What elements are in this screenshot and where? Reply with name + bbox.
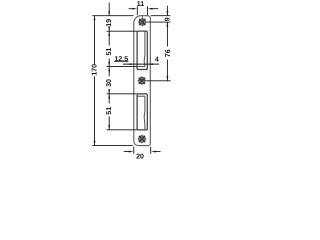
arrow 76 down: [166, 76, 168, 81]
arrow 19 down at plate top: [108, 11, 110, 16]
svg-text:30: 30: [106, 79, 113, 87]
dim 19 tail top: [108, 3, 110, 16]
dim 20 ext line right: [150, 147, 152, 154]
arrow 9 down: [166, 11, 168, 16]
dim 30 line: [108, 67, 110, 94]
arrow 4 (points left at cutout edge): [148, 63, 153, 65]
ext line cutout1 inner bottom: [107, 66, 137, 68]
arrow 9 up / 76 top: [166, 22, 168, 27]
svg-text:51: 51: [106, 107, 113, 115]
svg-text:9: 9: [165, 17, 172, 21]
arrow 51a down: [108, 62, 110, 67]
ext line cutout2 top: [107, 93, 137, 95]
dim 170 line lower: [94, 76, 96, 145]
arrow 51a up: [108, 31, 110, 36]
screw hole H1: [138, 16, 147, 27]
dim 9 tail bottom / dim 76 line: [166, 22, 168, 81]
svg-text:4: 4: [155, 57, 159, 64]
ext line hole1 centre: [147, 21, 171, 23]
dim 20 ext line left: [133, 147, 135, 154]
dim 11 arrow tails: [129, 8, 159, 10]
arrow 11 right (points left): [148, 8, 153, 10]
arrow 19 down at cutout1 top: [108, 27, 110, 32]
ext line hole2 centre: [146, 80, 170, 82]
leader line 12.5 / 4: [123, 63, 159, 65]
ext line plate bottom (left): [92, 145, 133, 147]
arrow 11 left (points right): [132, 8, 137, 10]
underline 12.5: [114, 60, 128, 62]
latch cutout (top): [137, 31, 147, 69]
svg-text:170: 170: [92, 64, 99, 76]
dim 51a line: [108, 31, 110, 66]
arrow 30 down: [108, 89, 110, 94]
dim 51b line: [108, 94, 110, 130]
svg-text:19: 19: [106, 19, 113, 27]
dim 19 tail bottom: [108, 28, 110, 32]
arrow 20 right (points left): [151, 151, 156, 153]
arrow 30 up: [108, 67, 110, 72]
latch lip line (top cutout): [143, 32, 146, 67]
deadbolt cutout (bottom): [137, 94, 147, 130]
dim 9 tail top: [166, 6, 168, 16]
screw hole H3: [138, 135, 147, 144]
dim 11 ext line right: [146, 6, 148, 15]
ext line cutout2 bottom: [107, 129, 137, 131]
dim 170 line upper: [94, 16, 96, 64]
arrow 12.5 (points right at plate edge): [130, 63, 135, 65]
arrow 51b down: [108, 125, 110, 130]
latch cutout top: inner bottom line: [137, 66, 145, 68]
screw hole H2: [138, 76, 147, 85]
svg-text:20: 20: [136, 154, 144, 160]
latch lip line (bottom cutout): [143, 96, 146, 129]
ext line cutout1 top: [107, 30, 137, 32]
dim 11 ext line left: [136, 6, 138, 15]
ext line plate top (right): [151, 15, 171, 17]
deadbolt cutout: inner top line: [137, 95, 145, 97]
strike plate outline: [134, 16, 151, 146]
dim 20 arrow tails: [124, 151, 161, 153]
arrow 170 down: [94, 141, 96, 146]
svg-text:51: 51: [106, 48, 113, 56]
arrow 170 up: [94, 16, 96, 21]
svg-text:12.5: 12.5: [114, 56, 128, 63]
arrow 20 left (points right): [129, 151, 134, 153]
svg-text:11: 11: [137, 1, 145, 8]
ext line plate top (left): [92, 15, 133, 17]
svg-text:76: 76: [165, 49, 172, 57]
arrow 51b up: [108, 94, 110, 99]
